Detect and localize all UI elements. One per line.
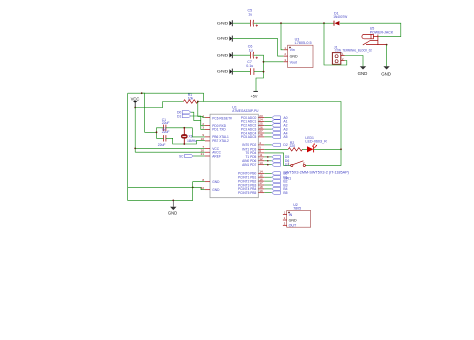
junction cap column — [156, 131, 158, 133]
power jack U5 POWER-JACK — [362, 27, 394, 45]
wire PD2 to flag — [264, 144, 272, 146]
net flag B1 — [272, 176, 288, 180]
wire J1 pin1 to GND symbol — [345, 56, 363, 67]
capacitor C2 22uF — [158, 127, 170, 147]
net flag D2 — [272, 143, 288, 147]
net flag B5 — [272, 191, 288, 195]
wire to MCU GND pin 22 — [193, 187, 205, 189]
svg-text:VCC: VCC — [131, 96, 140, 101]
wire C5 to VIN rail — [254, 22, 324, 24]
svg-text:PC5 ADC5: PC5 ADC5 — [241, 135, 257, 139]
svg-text:Vin: Vin — [290, 48, 295, 52]
svg-text:13: 13 — [259, 161, 263, 165]
junction VCC stem — [134, 107, 136, 109]
wire GND4 to C7 — [233, 71, 251, 73]
svg-text:X1: X1 — [189, 135, 193, 139]
wire ground top rail — [128, 92, 204, 94]
svg-text:GND: GND — [358, 71, 368, 76]
junction PD5 — [267, 156, 269, 158]
svg-text:A5: A5 — [283, 135, 287, 139]
MCU left pin names — [212, 116, 232, 192]
wire cap common drop — [142, 93, 157, 132]
net flag A0 — [272, 116, 288, 120]
junction ground stair — [192, 187, 194, 189]
MCU right pin names — [238, 116, 256, 195]
svg-text:GND: GND — [381, 72, 391, 77]
ground port GND (row 2) — [217, 36, 233, 42]
wire C1 to XTAL1 — [166, 128, 205, 137]
net flag A1 — [272, 120, 288, 124]
wire J1 pin2 to VIN rail — [324, 23, 347, 65]
net flag A5 — [272, 135, 288, 139]
wire VCC horizontal to R1 — [135, 102, 183, 108]
svg-text:GND: GND — [212, 188, 220, 192]
svg-text:OUT: OUT — [289, 224, 297, 228]
switch SW1 SWT5X3 — [283, 161, 349, 181]
voltage regulator U3 L7805-0.5 — [284, 37, 313, 67]
svg-text:D1: D1 — [177, 114, 181, 118]
wire GND3 to C6 — [233, 54, 251, 56]
svg-text:GND: GND — [217, 70, 229, 74]
wires ADC pins to flags — [264, 118, 272, 137]
wire column down and switch return — [306, 149, 342, 165]
ground port GND (row 3) — [217, 52, 233, 58]
net flag A3 — [272, 127, 288, 131]
wire cap common column — [157, 128, 164, 139]
MCU left pin stubs — [205, 118, 210, 190]
net flag B3 — [272, 183, 288, 187]
wire PD3 to R2 — [264, 148, 288, 150]
ground port GND (row 4) — [217, 69, 233, 75]
junction C7 tee — [263, 71, 265, 73]
svg-text:PB7 XTAL2: PB7 XTAL2 — [212, 139, 229, 143]
wires PD5 PD6 PD7 to flags — [264, 157, 272, 165]
junction LED column — [340, 148, 342, 150]
crystal X1 16MHz — [181, 128, 197, 144]
junction VIN / J1 branch — [323, 22, 325, 24]
capacitor C5 1u — [248, 9, 259, 27]
svg-text:GND: GND — [212, 180, 220, 184]
svg-text:LED-0603_R: LED-0603_R — [305, 140, 327, 144]
svg-text:GND: GND — [290, 55, 298, 59]
svg-text:21: 21 — [201, 152, 205, 156]
svg-text:GND: GND — [168, 211, 177, 216]
wire jack to GND symbol — [386, 45, 388, 67]
net flag D6 — [272, 159, 290, 163]
wire to U3 Vout — [264, 61, 284, 63]
svg-text:L7805-0.5: L7805-0.5 — [295, 41, 312, 45]
junction R1 / reset drop — [197, 101, 199, 103]
ground symbol (J1) — [358, 66, 368, 76]
wire ground left rail — [128, 93, 193, 200]
wire LED to column — [314, 148, 341, 150]
MCU U1 ATMEGA328P-PU — [210, 106, 259, 198]
svg-text:22uF: 22uF — [162, 130, 170, 134]
junction VCC pin tee — [134, 148, 136, 150]
junction PD6 — [267, 160, 269, 162]
svg-text:PCINT5 PB5: PCINT5 PB5 — [238, 191, 256, 195]
wire C6 to +5V column — [254, 55, 264, 91]
svg-text:22uF: 22uF — [158, 143, 166, 147]
power flag VCC — [131, 96, 140, 107]
junction PD7 — [267, 164, 269, 166]
junction VIN rail / U3 Vin — [280, 22, 282, 24]
net flag B4 — [272, 187, 288, 191]
svg-text:CON_TERMINAL_BLOCK_02: CON_TERMINAL_BLOCK_02 — [335, 49, 372, 53]
wire VIN rail to diode — [324, 22, 334, 24]
wire to VCC pin 7 — [135, 147, 205, 149]
MCU left pin numbers — [201, 114, 205, 190]
svg-text:1N4007W: 1N4007W — [333, 15, 348, 19]
net flag B0 — [272, 172, 288, 176]
svg-text:INT0 PD2: INT0 PD2 — [242, 143, 256, 147]
junction cap-common tap on top rail — [141, 92, 143, 94]
svg-text:AIN1 PD7: AIN1 PD7 — [242, 163, 256, 167]
svg-text:GND: GND — [289, 218, 297, 222]
regulator U2 7805 — [283, 203, 311, 228]
net flag A2 — [272, 124, 288, 128]
wire rail right to LED column — [198, 102, 341, 150]
svg-text:GND: GND — [217, 53, 229, 57]
wire D1 to TXD — [191, 116, 205, 129]
LED1 LED-0603_R — [305, 136, 327, 152]
wire top rail corner down — [203, 93, 205, 101]
ground symbol (power jack) — [381, 66, 391, 76]
net flag B2 — [272, 179, 288, 183]
svg-text:SC: SC — [179, 154, 184, 158]
svg-text:PC6 RESET#: PC6 RESET# — [212, 116, 232, 120]
svg-text:AREF: AREF — [212, 154, 221, 158]
junction jack ground — [386, 44, 388, 46]
terminal block J1 CON_TERMINAL_BLOCK_02 — [332, 45, 372, 64]
wires PB0-PB5 to flags — [264, 173, 272, 192]
svg-text:0.1u: 0.1u — [246, 64, 253, 68]
net flag D1 — [177, 114, 191, 118]
svg-text:Vout: Vout — [290, 61, 297, 65]
svg-text:PD1 TXD: PD1 TXD — [212, 128, 226, 132]
resistor R2 220 — [288, 141, 302, 151]
diode D1 1N4007W — [333, 11, 348, 25]
svg-text:ATMEGA328P-PU: ATMEGA328P-PU — [232, 109, 259, 113]
capacitor C6 1u — [248, 44, 258, 59]
svg-text:16MHz: 16MHz — [187, 139, 197, 143]
svg-text:19: 19 — [259, 189, 263, 193]
net flag A4 — [272, 131, 288, 135]
svg-text:1u: 1u — [249, 48, 253, 52]
wire C2 to XTAL2 — [166, 138, 205, 144]
capacitor C1 22uF — [162, 118, 170, 131]
junction ground symbol tee — [172, 200, 174, 202]
wire diode to power jack loop — [340, 23, 401, 36]
net flag D5 — [272, 155, 290, 159]
ground symbol (MCU) — [168, 200, 177, 215]
wire C7 to column — [254, 71, 264, 73]
wire reset drop to pin 1 — [198, 102, 205, 118]
resistor R1 10k — [183, 93, 197, 103]
svg-text:POWER-JACK: POWER-JACK — [370, 30, 394, 34]
wire AVCC pin 20 — [135, 151, 205, 153]
MCU right pin stubs — [258, 118, 264, 193]
svg-text:GND: GND — [217, 21, 229, 25]
wire D0 to RXD — [191, 112, 205, 125]
svg-text:D7: D7 — [285, 163, 289, 167]
MCU right pin numbers — [259, 114, 263, 193]
net flag D0 — [177, 111, 191, 115]
svg-text:10k: 10k — [188, 97, 194, 101]
ground port GND (row 1) — [217, 20, 233, 26]
svg-text:D2: D2 — [283, 143, 287, 147]
wire VCC stem down to supply pins — [134, 108, 136, 153]
wire to MCU GND pin 8 — [193, 182, 205, 188]
svg-text:7805: 7805 — [293, 206, 301, 210]
svg-text:B5: B5 — [283, 191, 287, 195]
junction crystal bottom — [183, 143, 185, 145]
svg-text:10: 10 — [201, 137, 205, 141]
wire GND2 to U3 GND pin — [233, 39, 284, 57]
svg-text:IN: IN — [289, 213, 293, 217]
wire PD4 to switch — [264, 153, 290, 166]
svg-text:22: 22 — [201, 186, 205, 190]
svg-text:SWT5X3-2MM-SWT5X3-2 (IT-1185AP: SWT5X3-2MM-SWT5X3-2 (IT-1185AP) — [283, 170, 349, 174]
junction Vout tee — [263, 61, 265, 63]
svg-text:1u: 1u — [248, 13, 252, 17]
wire down to U3 Vin — [281, 23, 284, 50]
capacitor C7 0.1u — [246, 60, 254, 75]
net flag D7 — [272, 163, 290, 167]
svg-text:220: 220 — [290, 144, 296, 148]
junction crystal top — [183, 127, 185, 129]
net flag SC (AREF) — [179, 154, 205, 158]
wire ground upper horizontal — [128, 186, 193, 188]
wire R2 to LED — [302, 148, 307, 150]
svg-text:+5V: +5V — [251, 94, 258, 98]
power flag +5V — [251, 91, 258, 98]
svg-text:28: 28 — [259, 133, 263, 137]
wire GND1 to C5 — [233, 22, 251, 24]
svg-text:GND: GND — [217, 37, 229, 41]
